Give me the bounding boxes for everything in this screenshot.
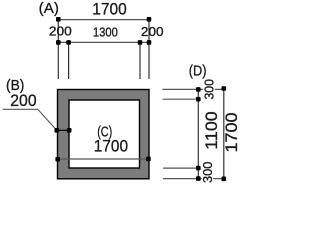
dimension line (A) overall 1700 top [58,19,149,21]
square wall (gray ring) [58,90,150,179]
svg-text:1100: 1100 [202,111,221,150]
svg-text:1300: 1300 [93,25,118,40]
svg-text:(A): (A) [39,0,59,17]
extension line D top inner [163,98,199,100]
dots dim line 200/1300/200 [56,40,151,45]
outer wall border [58,90,150,179]
extension line D bottom inner [163,167,198,169]
dots dimension line D [196,87,201,181]
extension line D bottom outer [163,178,224,180]
dimension line 200/1300/200 top [58,41,149,43]
dots dimension line right 1700 [222,86,227,181]
svg-text:(D): (D) [189,62,207,79]
extension line inner-right x140 [139,42,141,79]
svg-text:200: 200 [141,24,164,39]
leader line (B) [3,109,57,130]
svg-text:1700: 1700 [222,113,239,153]
extension line left x58 [57,19,59,79]
dimension line (C) 1700 [58,158,149,160]
dots dim line A [56,17,151,22]
inner wall border [69,100,140,168]
extension line right x149 [148,19,150,79]
extension line D top outer [163,88,224,90]
halo 300 right-bottom [202,162,214,183]
svg-text:1700: 1700 [92,0,127,18]
dimension line D 300/1100/300 [197,89,199,178]
svg-text:300: 300 [200,162,215,184]
svg-text:300: 300 [201,79,216,100]
halo 300 right-top [203,80,215,99]
svg-text:200: 200 [10,91,36,110]
dots (C) [55,157,150,162]
svg-text:1700: 1700 [94,136,128,155]
dots (B) [55,128,72,133]
svg-text:200: 200 [49,24,72,39]
extension line inner-left x68.6 [68,42,70,79]
dimension line right overall 1700 [223,89,225,179]
wall thickness tick (B) [57,129,69,131]
